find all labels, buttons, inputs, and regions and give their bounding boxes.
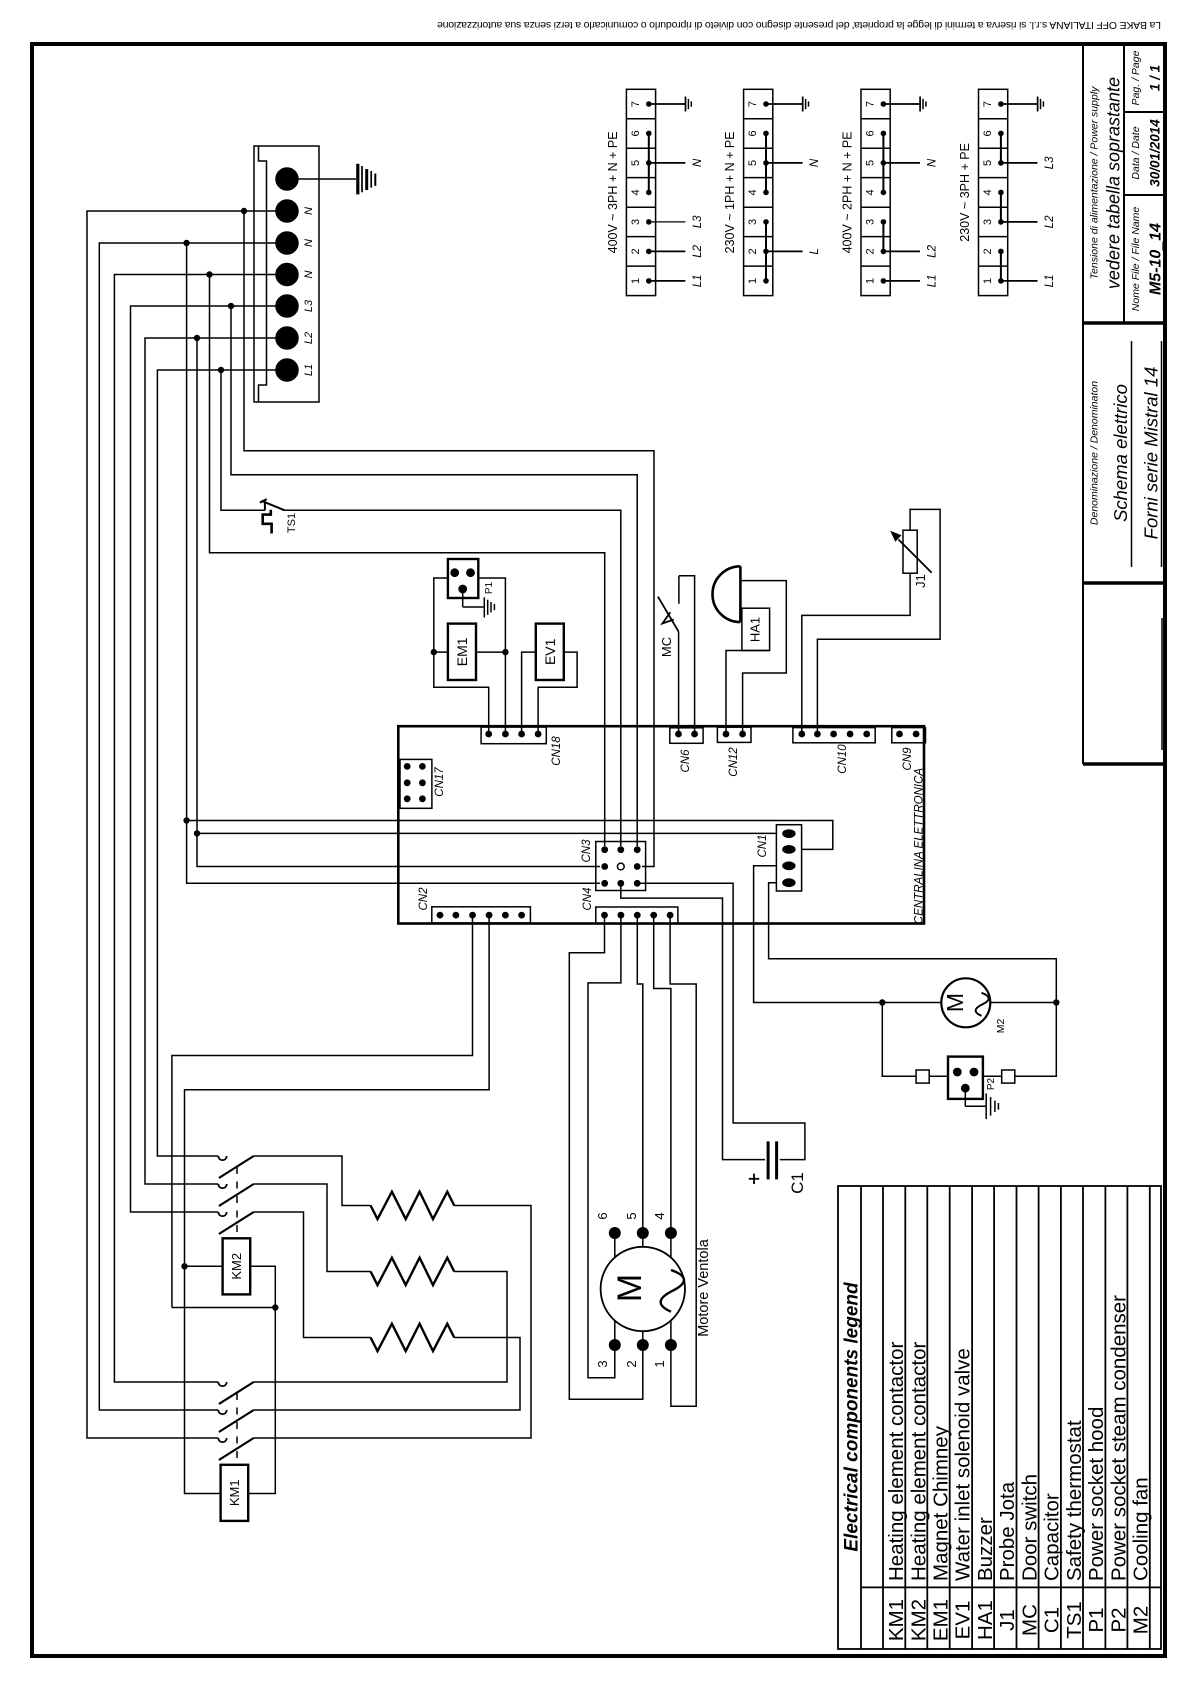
wire KM2 coil left — [185, 1265, 223, 1267]
svg-text:4: 4 — [652, 1212, 667, 1219]
wire P1 left to EM1 left — [434, 578, 448, 652]
faston terminal left — [916, 1070, 929, 1083]
motor pin 1 — [665, 1339, 677, 1351]
svg-text:KM1: KM1 — [885, 1599, 908, 1641]
junction dot N2 branch — [183, 240, 189, 246]
wire L3 from terminal — [131, 306, 288, 1212]
svg-text:Forni serie Mistral 14: Forni serie Mistral 14 — [1141, 367, 1162, 540]
svg-text:L: L — [809, 248, 821, 254]
connector CN12 — [717, 727, 751, 742]
wire L1 from terminal — [157, 370, 287, 1156]
svg-text:MC: MC — [1019, 1604, 1042, 1636]
svg-text:4: 4 — [982, 189, 994, 195]
wire N2 from terminal — [99, 243, 287, 1410]
svg-text:3: 3 — [630, 219, 642, 225]
svg-text:Buzzer: Buzzer — [974, 1517, 997, 1581]
legend descriptions — [885, 1295, 1152, 1581]
door switch MC — [658, 576, 695, 734]
terminal L3 — [276, 295, 298, 317]
svg-text:7: 7 — [982, 101, 994, 107]
fan motor Motore Ventola — [601, 1247, 685, 1331]
connector CN3 — [596, 842, 646, 891]
faston terminal right — [1002, 1070, 1015, 1083]
svg-text:M: M — [611, 1274, 649, 1302]
coil KM2 — [223, 1238, 251, 1294]
svg-text:4: 4 — [747, 189, 759, 195]
connector CN18 — [481, 727, 546, 744]
svg-text:Door switch: Door switch — [1019, 1474, 1042, 1581]
wire HA1 bottom to CN12 pin1 — [726, 651, 770, 735]
svg-text:6: 6 — [630, 130, 642, 136]
svg-text:L1: L1 — [1044, 275, 1056, 288]
wire N3 from terminal — [114, 275, 287, 1383]
wire CN1 pad3 to M2 left — [754, 866, 942, 1003]
power table 400V 2PH+N+PE — [841, 89, 939, 295]
svg-text:P2: P2 — [1107, 1607, 1130, 1632]
svg-text:N: N — [303, 207, 315, 215]
junction dot EM1 left — [431, 649, 437, 655]
contactor coil EM1 — [448, 624, 476, 680]
svg-text:KM2: KM2 — [229, 1253, 244, 1280]
wire EM1 left to CN18 pin1 — [434, 652, 489, 734]
connector CN10 — [793, 728, 875, 743]
connector CN9 — [892, 728, 926, 743]
svg-text:Nome File / File Name: Nome File / File Name — [1130, 207, 1142, 312]
svg-text:La BAKE OFF ITALIANA s.r.l. si: La BAKE OFF ITALIANA s.r.l. si riserva a… — [437, 19, 1161, 31]
svg-text:400V ~ 2PH + N + PE: 400V ~ 2PH + N + PE — [841, 131, 855, 253]
svg-text:HA1: HA1 — [748, 617, 763, 642]
wire M2 right — [990, 1002, 1056, 1004]
svg-text:EV1: EV1 — [952, 1601, 975, 1640]
svg-text:L2: L2 — [1044, 215, 1056, 228]
wire CN4 pin2 to motor pin3 — [588, 915, 621, 1378]
svg-text:1: 1 — [652, 1360, 667, 1367]
KM1 linkage dashed — [236, 1393, 238, 1465]
svg-text:P1: P1 — [1085, 1607, 1108, 1632]
svg-text:CN6: CN6 — [680, 749, 692, 773]
earth at pin7 — [802, 97, 804, 112]
svg-text:CN9: CN9 — [902, 747, 914, 771]
svg-text:5: 5 — [865, 160, 877, 166]
power table 230V 3PH+PE — [958, 89, 1056, 295]
svg-text:7: 7 — [747, 101, 759, 107]
svg-text:7: 7 — [630, 101, 642, 107]
junction dot coil left — [181, 1263, 187, 1269]
connector CN4 — [596, 907, 678, 924]
wire CN1 pad4 to M2 right — [769, 883, 1057, 1003]
svg-text:Safety thermostat: Safety thermostat — [1063, 1420, 1086, 1581]
wire KM2 coil right — [248, 1266, 275, 1493]
heating element R3 — [371, 1324, 455, 1351]
svg-text:M2: M2 — [1129, 1606, 1152, 1634]
wire R2 to KM1 pole1 — [254, 1272, 507, 1383]
wire L1 branch to TS1 — [221, 370, 265, 510]
svg-text:M2: M2 — [995, 1019, 1007, 1034]
wire TS1 to CN3 top-middle — [285, 510, 621, 846]
svg-text:N: N — [692, 158, 704, 167]
terminal block inner step — [259, 146, 267, 402]
solenoid valve EV1 — [536, 624, 564, 680]
legend table frame — [838, 1186, 1161, 1649]
svg-text:KM1: KM1 — [227, 1479, 242, 1506]
connector CN17 — [400, 759, 432, 808]
junction dot coil right — [272, 1304, 278, 1310]
svg-text:N: N — [303, 270, 315, 278]
junction dot EM1 right — [502, 649, 508, 655]
svg-text:Data / Date: Data / Date — [1130, 126, 1142, 179]
underline Schema elettrico — [1131, 341, 1133, 567]
wire J1 top to CN10 pin2 — [817, 509, 940, 734]
svg-text:1: 1 — [747, 278, 759, 284]
buzzer HA1 — [713, 566, 770, 650]
terminal L1 — [276, 359, 298, 381]
wire L2 from terminal — [145, 338, 287, 1184]
svg-text:L3: L3 — [1044, 156, 1056, 169]
svg-text:2: 2 — [630, 248, 642, 254]
wire CN2 pin4 to coils left — [185, 915, 490, 1493]
svg-text:230V ~ 1PH + N + PE: 230V ~ 1PH + N + PE — [723, 131, 737, 253]
svg-text:TS1: TS1 — [1063, 1601, 1086, 1639]
svg-text:1 / 1: 1 / 1 — [1148, 65, 1163, 91]
svg-text:Denominazione / Denominaton: Denominazione / Denominaton — [1089, 381, 1101, 525]
earth symbol main — [358, 164, 376, 195]
svg-text:L2: L2 — [927, 244, 939, 257]
contactor KM2 pole 3 — [218, 1212, 253, 1234]
svg-text:M5-10_14: M5-10_14 — [1148, 223, 1165, 295]
junction dot N1 branch — [241, 208, 247, 214]
svg-text:J1: J1 — [913, 574, 928, 588]
svg-text:30/01/2014: 30/01/2014 — [1148, 119, 1163, 187]
svg-text:L1: L1 — [927, 275, 939, 288]
svg-text:EM1: EM1 — [454, 637, 470, 666]
svg-text:Motore Ventola: Motore Ventola — [696, 1238, 712, 1336]
motor pin 5 — [637, 1227, 649, 1239]
wire CN4 pin3 to motor pin5 — [637, 915, 643, 1233]
connector CN6 — [670, 728, 703, 744]
wire CN2 pin3 to coils right — [172, 915, 473, 1307]
svg-text:3: 3 — [865, 219, 877, 225]
svg-text:C1: C1 — [1041, 1607, 1064, 1633]
contactor KM2 pole 1 — [218, 1156, 253, 1178]
svg-text:KM2: KM2 — [907, 1599, 930, 1641]
motor pin 3 — [609, 1339, 621, 1351]
wire M2 left branch down to P2 — [882, 1003, 916, 1077]
svg-text:Tensione di alimentazione / Po: Tensione di alimentazione / Power supply — [1089, 86, 1101, 280]
svg-text:CN10: CN10 — [837, 744, 849, 774]
terminal N — [276, 200, 298, 222]
svg-text:4: 4 — [630, 189, 642, 195]
svg-text:P2: P2 — [986, 1077, 997, 1090]
svg-text:Electrical components legend: Electrical components legend — [842, 1282, 863, 1552]
power socket P2 — [948, 1057, 983, 1099]
svg-text:Heating element contactor: Heating element contactor — [885, 1342, 908, 1581]
wire faston right up — [1015, 1003, 1057, 1077]
svg-text:2: 2 — [865, 248, 877, 254]
underline Forni serie Mistral 14 — [1161, 341, 1163, 567]
wire P1 right to EM1 right — [478, 578, 505, 652]
svg-text:400V ~ 3PH + N + PE: 400V ~ 3PH + N + PE — [606, 131, 620, 253]
svg-text:M: M — [942, 993, 968, 1012]
junction dot N2 to CN1 — [183, 817, 189, 823]
svg-text:EM1: EM1 — [929, 1599, 952, 1641]
svg-text:CENTRALINA ELETTRONICA: CENTRALINA ELETTRONICA — [914, 768, 926, 924]
power table 400V 3PH+N+PE — [606, 89, 704, 295]
connector CN2 — [432, 907, 531, 923]
svg-text:2: 2 — [624, 1360, 639, 1367]
motor pin 4 — [665, 1227, 677, 1239]
wire A: N1 branch to CN3 middle-right — [244, 211, 654, 867]
junction dot N3 branch — [206, 271, 212, 277]
svg-text:L3: L3 — [303, 299, 315, 312]
svg-text:CN12: CN12 — [728, 747, 740, 777]
junction dot M2 right branch — [1053, 999, 1059, 1005]
svg-text:6: 6 — [865, 130, 877, 136]
wire PE to earth — [298, 178, 356, 180]
wire HA1 top to CN12 pin2 — [740, 581, 786, 734]
svg-text:Pag. / Page: Pag. / Page — [1130, 50, 1142, 105]
wire N3 branch to CN3 top-left — [210, 275, 605, 847]
wire EV1 right to CN18 pin4 — [538, 652, 577, 734]
svg-text:Capacitor: Capacitor — [1041, 1493, 1064, 1581]
svg-text:2: 2 — [747, 248, 759, 254]
motor M2 — [941, 978, 990, 1027]
wire CN3 bottom-right to C1 right — [637, 883, 805, 1159]
wire CN4 pin5 to motor pin1 — [670, 915, 696, 1406]
earth at P2 — [965, 1088, 998, 1119]
svg-text:5: 5 — [624, 1212, 639, 1219]
wire L2 branch to CN3 middle-left — [197, 338, 600, 867]
svg-text:N: N — [303, 239, 315, 247]
junction dot L1 branch — [218, 367, 224, 373]
svg-text:CN17: CN17 — [434, 767, 446, 797]
contactor KM2 pole 2 — [218, 1184, 253, 1206]
svg-text:230V ~ 3PH + PE: 230V ~ 3PH + PE — [958, 143, 972, 242]
tilde in fan motor — [661, 1270, 684, 1312]
svg-text:Schema elettrico: Schema elettrico — [1110, 384, 1131, 522]
capacitor C1 — [768, 1141, 777, 1179]
wire J1 bottom to CN10 pin1 — [802, 573, 910, 734]
wire KM2 pole3 out to R3 — [254, 1212, 371, 1338]
svg-text:N: N — [809, 158, 821, 167]
wire KM2 pole2 out to R2 — [254, 1184, 371, 1272]
svg-text:4: 4 — [865, 189, 877, 195]
svg-text:3: 3 — [982, 219, 994, 225]
earth at pin7 — [919, 97, 921, 112]
wire KM2 pole1 out to R1 — [254, 1156, 371, 1206]
svg-text:3: 3 — [595, 1360, 610, 1367]
junction dot L2 to CN1 — [194, 830, 200, 836]
svg-text:P1: P1 — [484, 581, 495, 594]
wire CN3 bottom-middle to C1 left — [621, 883, 765, 1159]
motor pin 2 — [637, 1339, 649, 1351]
svg-text:vedere tabella soprastante: vedere tabella soprastante — [1104, 77, 1124, 289]
empty cell underline — [1161, 618, 1163, 750]
terminal N — [276, 264, 298, 286]
svg-text:L1: L1 — [303, 364, 315, 376]
svg-text:Water inlet solenoid valve: Water inlet solenoid valve — [952, 1348, 975, 1581]
label + — [749, 1174, 759, 1184]
motor pin 6 — [609, 1227, 621, 1239]
svg-text:1: 1 — [865, 278, 877, 284]
junction dot M2 left branch — [879, 999, 885, 1005]
power table 230V 1PH+N+PE — [723, 89, 821, 295]
svg-text:MC: MC — [659, 637, 674, 657]
earth at P1 — [463, 589, 495, 618]
svg-text:2: 2 — [982, 248, 994, 254]
thermostat TS1 — [260, 499, 285, 533]
svg-text:CN2: CN2 — [418, 887, 430, 911]
svg-text:CN4: CN4 — [582, 887, 594, 910]
contactor KM1 pole 2 — [218, 1410, 253, 1432]
svg-text:3: 3 — [747, 219, 759, 225]
wire EM1 left lead — [434, 651, 448, 653]
wire L2 to CN1 pad1 — [197, 832, 776, 834]
svg-text:C1: C1 — [788, 1172, 807, 1194]
svg-text:TS1: TS1 — [286, 513, 298, 533]
coil KM1 — [221, 1465, 249, 1521]
junction dot L2 branch — [194, 335, 200, 341]
wire R1 to KM1 pole3 — [254, 1206, 531, 1439]
svg-text:L2: L2 — [692, 244, 704, 257]
wire N2 to CN1 pad2 loop — [187, 821, 833, 850]
terminal L2 — [276, 327, 298, 349]
wire N2 branch to CN3 bottom-left — [187, 243, 600, 883]
svg-text:6: 6 — [982, 130, 994, 136]
svg-text:Probe Jota: Probe Jota — [996, 1481, 1019, 1581]
power socket P1 — [448, 559, 478, 598]
terminal PE — [276, 168, 298, 190]
svg-text:5: 5 — [982, 160, 994, 166]
svg-text:CN3: CN3 — [581, 839, 593, 863]
svg-text:1: 1 — [982, 278, 994, 284]
heating element R1 — [371, 1192, 455, 1219]
earth at pin7 — [685, 97, 687, 112]
svg-text:1: 1 — [630, 278, 642, 284]
KM2 linkage dashed — [236, 1167, 238, 1238]
wire R3 to KM1 pole2 — [254, 1338, 520, 1411]
title block outline — [1083, 44, 1165, 764]
wire P2 right to M2 right branch — [983, 1075, 1002, 1077]
svg-text:L2: L2 — [303, 332, 315, 344]
electronic control unit box — [398, 726, 924, 923]
svg-text:CN18: CN18 — [551, 736, 563, 766]
earth at pin7 — [1037, 97, 1039, 112]
terminal block — [254, 146, 319, 402]
tilde in M2 — [976, 993, 989, 1016]
svg-text:N: N — [927, 158, 939, 167]
svg-text:Magnet Chimney: Magnet Chimney — [929, 1425, 952, 1581]
wire N1 from terminal — [87, 211, 287, 1438]
junction dot L3 branch — [228, 303, 234, 309]
contactor KM1 pole 1 — [218, 1382, 253, 1404]
legend codes — [885, 1599, 1152, 1641]
wire CN4 pin4 to motor pin4 — [654, 915, 671, 1233]
svg-text:5: 5 — [630, 160, 642, 166]
svg-text:HA1: HA1 — [974, 1600, 997, 1640]
connector CN1 — [776, 825, 801, 891]
svg-text:Power socket hood: Power socket hood — [1085, 1407, 1108, 1581]
wire B: L3 branch to CN3 top-right — [231, 306, 637, 846]
wire EV1 left to CN18 pin3 — [522, 652, 536, 734]
svg-text:5: 5 — [747, 160, 759, 166]
svg-text:CN1: CN1 — [757, 834, 769, 857]
svg-text:Power socket steam condenser: Power socket steam condenser — [1107, 1295, 1130, 1581]
wire coils right junction — [172, 1307, 275, 1309]
heating element R2 — [371, 1258, 455, 1285]
wire faston to P2 — [929, 1075, 948, 1077]
wire EM1 right to CN18 pin2 — [504, 652, 506, 734]
svg-text:EV1: EV1 — [542, 638, 558, 665]
svg-text:6: 6 — [595, 1212, 610, 1219]
svg-text:J1: J1 — [996, 1609, 1019, 1631]
svg-text:Heating element contactor: Heating element contactor — [907, 1342, 930, 1581]
svg-text:7: 7 — [865, 101, 877, 107]
wire EM1 right lead — [476, 651, 505, 653]
contactor KM1 pole 3 — [218, 1438, 253, 1460]
svg-text:6: 6 — [747, 130, 759, 136]
svg-text:L3: L3 — [692, 215, 704, 228]
probe J1 — [890, 530, 932, 573]
wire CN4 pin1 to motor pin2 — [569, 915, 643, 1399]
svg-text:L1: L1 — [692, 275, 704, 288]
svg-text:Cooling fan: Cooling fan — [1129, 1477, 1152, 1581]
terminal N — [276, 232, 298, 254]
